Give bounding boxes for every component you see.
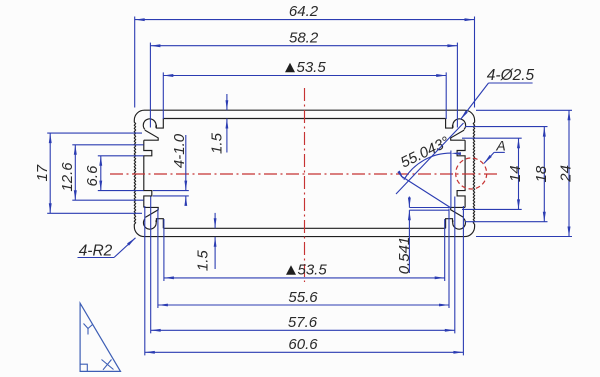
top-left panel groove ledge and lip xyxy=(144,130,158,140)
svg-text:58.2: 58.2 xyxy=(289,29,319,46)
dimension 24 xyxy=(558,110,575,236)
svg-text:57.6: 57.6 xyxy=(288,314,318,331)
dimension 6.6 xyxy=(84,156,102,191)
svg-text:64.2: 64.2 xyxy=(289,3,319,20)
svg-text:A: A xyxy=(495,138,505,154)
floor inner surface xyxy=(163,227,445,229)
floor panel slot right xyxy=(446,219,453,229)
right wall inner edge with PCB slot teeth xyxy=(457,140,465,207)
extension lines left dims xyxy=(47,133,143,213)
bottom-right panel groove ledge and lip xyxy=(451,207,465,217)
screw boss top-right xyxy=(453,119,466,130)
dimension 53.5 top xyxy=(163,59,446,77)
svg-text:12.6: 12.6 xyxy=(59,162,76,192)
dimension 57.6 xyxy=(151,314,455,332)
ceiling panel slot right xyxy=(446,119,453,129)
dimension 53.5 bottom xyxy=(164,262,445,280)
label 4-R2 with leader xyxy=(78,238,136,260)
extension lines bottom dims xyxy=(145,197,464,356)
bottom-left panel groove ledge and lip xyxy=(144,207,158,217)
vertical centerline xyxy=(304,88,306,282)
top-right panel groove ledge and lip xyxy=(451,130,465,140)
dimension 18 xyxy=(533,127,550,222)
angle dimension 55.043 deg xyxy=(397,133,461,207)
dimension 0.541 xyxy=(396,197,450,275)
dimension 12.6 xyxy=(59,145,77,200)
horizontal centerline xyxy=(110,173,498,175)
dimension 60.6 xyxy=(145,336,464,354)
screw boss top-left xyxy=(143,119,156,130)
svg-text:60.6: 60.6 xyxy=(288,336,318,353)
label 4-dia2.5 with leader xyxy=(461,67,535,120)
screw boss bottom-right xyxy=(453,219,466,230)
label A with leader xyxy=(484,138,506,164)
svg-text:24: 24 xyxy=(558,165,575,183)
ceiling panel slot left xyxy=(156,119,163,129)
svg-text:0.541: 0.541 xyxy=(396,237,413,275)
projection/datum triangle symbol xyxy=(80,303,120,371)
dimension 58.2 xyxy=(150,29,457,47)
left wall inner edge with PCB slot teeth xyxy=(144,140,152,207)
svg-text:53.5: 53.5 xyxy=(297,59,327,76)
svg-text:55.6: 55.6 xyxy=(288,289,318,306)
dimension 1.5 bottom wall xyxy=(195,213,217,271)
dimension 14 xyxy=(507,138,524,209)
profile outer outline with knurled side walls xyxy=(134,110,474,236)
extension lines right dims xyxy=(462,110,572,236)
dimension 17 xyxy=(34,133,52,213)
svg-text:4-1.0: 4-1.0 xyxy=(171,133,188,168)
extension lines top dims xyxy=(135,17,475,128)
screw boss bottom-left xyxy=(143,219,156,230)
dimension 64.2 xyxy=(135,3,475,21)
svg-text:14: 14 xyxy=(507,165,524,182)
dimension 1.5 top wall xyxy=(209,94,229,154)
ceiling inner surface xyxy=(163,118,445,120)
dimension 4-1.0 xyxy=(153,133,189,206)
svg-text:6.6: 6.6 xyxy=(84,165,101,187)
svg-text:1.5: 1.5 xyxy=(209,132,226,154)
svg-text:18: 18 xyxy=(533,165,550,182)
detail circle A xyxy=(456,158,487,189)
svg-text:17: 17 xyxy=(34,164,51,181)
svg-text:53.5: 53.5 xyxy=(298,262,328,279)
dimension 55.6 xyxy=(158,289,449,307)
svg-text:4-Ø2.5: 4-Ø2.5 xyxy=(487,67,535,84)
svg-text:1.5: 1.5 xyxy=(195,250,212,272)
boss opening construction line xyxy=(396,123,464,194)
floor panel slot left xyxy=(156,219,163,229)
